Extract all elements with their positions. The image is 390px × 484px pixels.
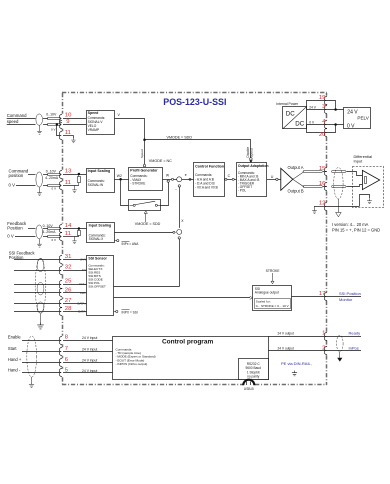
svg-text:0..10V: 0..10V (43, 224, 54, 228)
pin label 24 V (80, 258, 86, 262)
svg-text:19: 19 (319, 95, 326, 101)
svg-text:24 V output: 24 V output (278, 346, 294, 350)
label Start (8, 346, 18, 351)
svg-text:SSI Position: SSI Position (339, 291, 361, 296)
wire to pin 11 (57, 125, 74, 139)
block 24V PELV supply (344, 108, 371, 130)
label InPos (349, 345, 359, 350)
svg-text:0 V: 0 V (51, 238, 56, 242)
svg-text:- STROKE: - STROKE (130, 181, 145, 185)
label 24V (309, 106, 316, 110)
wire output B external (332, 185, 363, 188)
wire ramp bypass down (121, 180, 129, 206)
label Ready (349, 330, 361, 335)
svg-text:Command: Command (7, 113, 27, 118)
svg-text:PIN 15 = +, PIN 12 = GND: PIN 15 = +, PIN 12 = GND (332, 228, 380, 233)
label 0..10V fb (43, 224, 54, 228)
title POS-123-U-SSI (163, 97, 226, 107)
block Control program (113, 337, 269, 380)
block Input Scaling W (87, 169, 115, 193)
label 0V small fb (51, 238, 56, 242)
minus sign (175, 187, 177, 192)
label 0..10V (46, 113, 57, 117)
wire Ready external (327, 336, 361, 338)
pin 8 (65, 334, 69, 340)
block Profil Generator (129, 168, 163, 191)
shield drain ground feedback (37, 239, 42, 247)
wire command position signal (28, 174, 86, 176)
wire Start (22, 351, 113, 353)
svg-text:0 V: 0 V (51, 186, 56, 190)
label PE via DIN-RAIL (281, 361, 312, 366)
svg-text:VMODE = SDD: VMODE = SDD (135, 222, 161, 226)
svg-text:24 V output: 24 V output (278, 331, 294, 335)
block Speed commands (87, 111, 115, 135)
svg-text:32: 32 (65, 265, 72, 271)
svg-text:9: 9 (66, 119, 69, 125)
svg-text:CLK-: CLK- (80, 291, 86, 295)
svg-text:20: 20 (319, 132, 326, 138)
block Control Function (194, 163, 225, 197)
svg-text:position: position (9, 173, 24, 178)
svg-text:24 V input: 24 V input (82, 358, 97, 362)
wire V to VMODE node (115, 113, 145, 139)
svg-text:Internal Power: Internal Power (276, 102, 299, 106)
shield ellipse SSI cable (35, 258, 46, 313)
block RS232 interface (239, 359, 269, 380)
svg-text:- V0:A and V0:B: - V0:A and V0:B (195, 185, 218, 189)
contact sum out (189, 178, 191, 180)
svg-text:Output A: Output A (288, 165, 304, 170)
pin label DATA+ (78, 302, 87, 306)
svg-text:InPos: InPos (349, 345, 359, 350)
pin label CLK+ (79, 282, 86, 286)
svg-text:VMODE = SDD: VMODE = SDD (167, 135, 193, 139)
pin 28 (65, 306, 72, 312)
shield ellipse feedback (36, 225, 43, 239)
block ramp bypass switch (129, 200, 162, 211)
wire X up (180, 187, 185, 228)
pin 11 fb (65, 231, 71, 237)
wire X SSI vertical (114, 239, 180, 286)
label 0 V feedback (7, 233, 14, 238)
terminal hooks left border (59, 114, 62, 377)
wire 24V out (307, 101, 328, 110)
ground 0V fb (72, 237, 76, 244)
svg-text:I version: 4... 20 mA: I version: 4... 20 mA (332, 222, 369, 227)
label SSI Feedback Position (9, 250, 36, 260)
pin 17 (319, 291, 326, 297)
pin 6 (65, 357, 69, 363)
svg-text:VMODE = NC: VMODE = NC (149, 159, 172, 163)
shield ellipse outputs (337, 335, 344, 351)
contact selector left (173, 231, 175, 233)
label VMODE = NC (149, 159, 172, 163)
svg-text:Output B: Output B (288, 189, 304, 194)
shield ellipse command position (36, 172, 43, 187)
pin 2 (322, 345, 325, 351)
wire command speed 0V (7, 124, 86, 126)
svg-text:DC: DC (286, 111, 295, 118)
label 24V input Hand + (82, 358, 97, 362)
svg-text:14: 14 (65, 223, 72, 229)
svg-text:SSI:OFFSET: SSI:OFFSET (88, 285, 106, 289)
wire VMODE=SDD to output adaptation (145, 140, 251, 158)
label Output B (288, 189, 304, 194)
contact into output adaptation (249, 158, 252, 163)
pin 27 (65, 298, 72, 304)
wire bypass up to node (161, 180, 170, 206)
svg-text:DATA-: DATA- (78, 310, 86, 314)
svg-text:Position: Position (7, 226, 23, 231)
wire Enable (22, 340, 113, 342)
svg-text:2: 2 (322, 345, 325, 351)
label 0V at junction (51, 127, 56, 131)
svg-text:SIGNAL:X: SIGNAL:X (89, 237, 105, 241)
svg-text:0 V: 0 V (347, 123, 355, 129)
label Hand - (8, 368, 21, 373)
USB-B connector (243, 380, 254, 386)
svg-text:Profil Generator: Profil Generator (130, 169, 158, 173)
svg-text:Hand +: Hand + (8, 357, 22, 362)
wire 24V output inpos (268, 346, 327, 350)
label 0..10V pos (46, 170, 57, 174)
shield ellipse digital inputs (27, 336, 37, 377)
shunt resistor fb (78, 229, 81, 237)
label Hand + (8, 357, 22, 362)
wire feedback signal (28, 228, 87, 230)
svg-text:INPX = SSI: INPX = SSI (122, 310, 138, 314)
svg-text:W2: W2 (117, 174, 122, 178)
svg-text:24 V input: 24 V input (82, 347, 97, 351)
summing junction (177, 177, 182, 182)
junction 0V branch (56, 123, 59, 126)
svg-text:Enable: Enable (8, 335, 21, 340)
label Enable (8, 335, 21, 340)
rotated label speed (140, 149, 144, 158)
svg-text:Output Adaptation: Output Adaptation (238, 164, 269, 168)
pin 20 (319, 132, 326, 138)
svg-text:DATA+: DATA+ (78, 302, 87, 306)
label VMODE = SDD switch (135, 211, 161, 226)
rotated label speed signal (246, 147, 253, 158)
pin 15 (319, 166, 326, 172)
svg-text:Speed: Speed (88, 111, 99, 115)
wire command speed signal (7, 118, 86, 120)
svg-text:Control program: Control program (162, 339, 213, 346)
pin 1 (322, 330, 325, 336)
pin 11 pos (65, 180, 71, 186)
op-amp differential input (362, 170, 379, 189)
wire W to summing (163, 173, 177, 179)
pin 10 (65, 113, 72, 119)
wire output A external (332, 171, 363, 176)
wire SSI to analogue output (114, 296, 253, 299)
svg-text:26: 26 (65, 288, 72, 294)
svg-text:16: 16 (319, 181, 326, 187)
svg-text:USB-B: USB-B (244, 387, 254, 391)
resistor input termination (365, 177, 367, 184)
ground 0V pos (72, 186, 76, 193)
svg-text:0... STROKE = 0... 10 V: 0... STROKE = 0... 10 V (256, 304, 290, 308)
junction W2 branch (119, 178, 122, 181)
label Command position (9, 169, 29, 178)
pin 16 (319, 181, 326, 187)
svg-text:VRAMP: VRAMP (88, 128, 100, 132)
svg-text:Input Scaling: Input Scaling (89, 223, 112, 227)
block SSI Analogue output (253, 286, 292, 311)
stub INPx ANA (115, 240, 140, 247)
selector junction (177, 229, 182, 234)
label 0V small pos (51, 186, 56, 190)
wire 24V external (327, 101, 344, 111)
svg-text:Ready: Ready (349, 330, 361, 335)
contact selector bottom (178, 237, 180, 239)
svg-text:24 V input: 24 V input (82, 369, 97, 373)
svg-text:no parity: no parity (247, 375, 260, 379)
label 4..20mA fb (42, 230, 56, 234)
wire VMODE=NC down (144, 140, 146, 164)
label USB-B (244, 387, 254, 391)
label 4..20mA pos (45, 176, 59, 180)
wire output A (293, 171, 327, 180)
block SSI Sensor (87, 256, 114, 316)
pin 7 (65, 346, 68, 352)
shield drain ground SSI (37, 314, 44, 329)
stub INPX SSI (114, 310, 138, 315)
wire C (224, 174, 236, 181)
svg-text:PE via DIN-RAIL,: PE via DIN-RAIL, (281, 361, 312, 366)
wire e to control function (182, 173, 194, 179)
block Output Adaptation (237, 163, 269, 197)
pin 13 (65, 168, 72, 174)
svg-text:speed: speed (7, 119, 19, 124)
wire Hand - (22, 372, 113, 374)
pin 11 (65, 130, 71, 136)
shield drain output cable (336, 199, 342, 217)
svg-text:0 V: 0 V (51, 127, 56, 131)
svg-text:Monitor: Monitor (339, 297, 353, 302)
svg-text:Hand -: Hand - (8, 368, 21, 373)
svg-text:7: 7 (65, 346, 68, 352)
svg-text:31: 31 (65, 254, 72, 260)
svg-text:Speed: Speed (140, 149, 144, 158)
pin 25 (65, 279, 72, 285)
svg-text:0 V: 0 V (82, 268, 86, 272)
terminal hooks right border (324, 96, 327, 355)
svg-text:12: 12 (319, 201, 326, 207)
svg-text:PELV: PELV (357, 115, 369, 120)
wire SSI monitor external (327, 296, 361, 298)
svg-text:10: 10 (65, 113, 72, 119)
svg-text:Speed: Speed (250, 148, 254, 157)
svg-text:4..20mA: 4..20mA (42, 230, 56, 234)
svg-text:INPx = ANA: INPx = ANA (122, 242, 140, 246)
label 24V input Start (82, 347, 97, 351)
svg-text:15: 15 (319, 166, 326, 172)
svg-text:24 V input: 24 V input (82, 336, 97, 340)
shield ellipse output cable (334, 167, 343, 199)
shunt resistor pos (78, 174, 81, 186)
wire InPos external (327, 350, 361, 352)
svg-text:DC: DC (295, 121, 304, 128)
pin 14 (65, 223, 72, 229)
svg-text:0 V: 0 V (9, 182, 16, 187)
svg-text:Disable: Disable (246, 147, 250, 158)
label SSI Position Monitor (339, 291, 361, 302)
svg-text:24 V: 24 V (80, 258, 86, 262)
ground pin 11 wire (71, 138, 75, 143)
svg-text:11: 11 (65, 130, 71, 136)
wire command position 0V (16, 185, 79, 187)
label I version (332, 222, 369, 227)
shield drain outputs (337, 352, 342, 362)
wire 24V output ready (268, 331, 327, 336)
pin 31 (65, 254, 72, 260)
svg-text:13: 13 (65, 168, 72, 174)
ground PE (292, 371, 297, 376)
pin 32 (65, 265, 72, 271)
svg-text:11: 11 (65, 180, 71, 186)
svg-text:0..10V: 0..10V (46, 170, 57, 174)
pin 4 (322, 119, 326, 125)
module boundary (dash-dot enclosure) (62, 93, 327, 386)
op-amp output stage (281, 168, 293, 190)
svg-text:17: 17 (319, 291, 326, 297)
wire 0V out (307, 125, 328, 133)
svg-text:Input Scaling: Input Scaling (88, 169, 111, 173)
differential input dashed box (353, 167, 384, 208)
wire pin 17 (292, 296, 328, 298)
label Feedback Position (7, 221, 27, 231)
block DC/DC converter (283, 106, 307, 129)
ground differential internal (367, 199, 372, 204)
svg-text:Scaled for:: Scaled for: (256, 300, 271, 304)
shield drain ground command speed (37, 125, 42, 134)
pin label CLK- (80, 291, 86, 295)
shield ellipse command speed (36, 114, 43, 125)
pin label 0 V (82, 268, 86, 272)
pin label DATA- (78, 310, 86, 314)
block Input Scaling X (87, 223, 115, 243)
svg-text:Analogue output: Analogue output (255, 291, 279, 295)
svg-text:e: e (185, 173, 187, 177)
svg-text:1: 1 (322, 330, 325, 336)
svg-text:STROKE: STROKE (266, 269, 281, 273)
wire Hand + (22, 362, 113, 364)
junction VMODE split (143, 139, 146, 142)
wire feedback 0V (15, 236, 79, 238)
svg-text:- INPOS (InPos output): - INPOS (InPos output) (116, 362, 148, 366)
label PIN assignment (332, 228, 380, 233)
shield drain ground command position (37, 187, 42, 195)
shield drain ground digital (29, 377, 34, 388)
pin 9 (66, 119, 69, 125)
pin 19 (319, 95, 326, 101)
svg-text:Control Function: Control Function (195, 164, 224, 168)
wire 0V external (327, 123, 344, 132)
wire X analog to selector (115, 232, 176, 234)
pin 12 (319, 201, 326, 207)
svg-text:Input: Input (354, 159, 364, 164)
label Differential Input (354, 154, 373, 163)
label 24V input Hand - (82, 369, 97, 373)
wire pin12 ground (312, 206, 327, 213)
svg-text:Start: Start (8, 346, 18, 351)
wire output B (293, 179, 327, 187)
contact sum bottom (178, 185, 180, 187)
svg-text:SIGNAL:W: SIGNAL:W (88, 183, 104, 187)
arrow STROKE down (271, 273, 274, 284)
label 24V input Enable (82, 336, 97, 340)
svg-text:4..20mA: 4..20mA (45, 176, 59, 180)
label 0 V position (9, 182, 16, 187)
svg-text:CLK+: CLK+ (79, 282, 86, 286)
contact W (171, 178, 173, 180)
junction shunt fb (78, 227, 81, 230)
pin 5 (65, 367, 69, 373)
svg-text:- POL: - POL (238, 189, 246, 193)
svg-text:POS-123-U-SSI: POS-123-U-SSI (163, 97, 226, 107)
svg-text:SSI Sensor: SSI Sensor (88, 256, 107, 260)
svg-text:24 V: 24 V (309, 106, 316, 110)
label STROKE (266, 269, 281, 273)
wire W2 (115, 174, 129, 180)
svg-text:28: 28 (65, 306, 72, 312)
pin 3 (322, 104, 326, 110)
label Output A (288, 165, 304, 170)
svg-text:27: 27 (65, 298, 72, 304)
wire U to amplifier (267, 175, 281, 180)
label VMODE = SDD top (167, 135, 193, 139)
label 0V (309, 121, 315, 125)
pin 26 (65, 288, 72, 294)
wires SSI sensor (14, 260, 87, 312)
wire pin12 external (327, 195, 370, 207)
contact at profile generator top (143, 164, 146, 167)
label Internal Power (276, 102, 299, 106)
svg-text:0 V: 0 V (7, 233, 14, 238)
svg-text:11: 11 (65, 231, 71, 237)
svg-text:25: 25 (65, 279, 72, 285)
junction shunt pos (78, 173, 81, 176)
svg-text:0..10V: 0..10V (46, 113, 57, 117)
label Command speed (7, 113, 27, 124)
